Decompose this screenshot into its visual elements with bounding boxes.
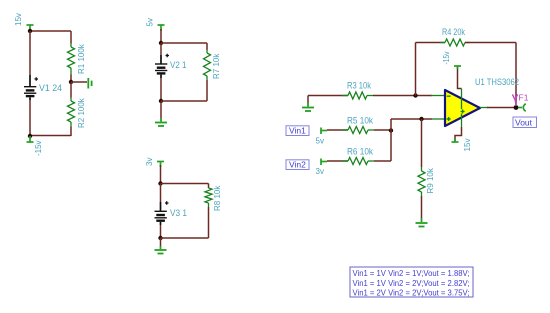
svg-text:R3 10k: R3 10k: [347, 81, 371, 91]
power terminal 3v (V3 top): [157, 162, 164, 168]
open terminal at output: [519, 104, 526, 112]
svg-text:V3 1: V3 1: [170, 208, 187, 218]
wire output: [487, 107, 516, 109]
wire Vin2 to R6: [327, 160, 348, 162]
ground (R3 input): [302, 96, 314, 112]
wire V1 bottom: [30, 135, 71, 137]
measurement results text box: [350, 267, 473, 298]
svg-text:15v: 15v: [463, 139, 472, 152]
resistor R5 10k: [342, 116, 374, 134]
svg-text:Vin1 = 2V Vin2 = 2V;Vout = 3.7: Vin1 = 2V Vin2 = 2V;Vout = 3.75V;: [353, 288, 470, 298]
resistor R6 10k: [342, 147, 374, 165]
op-amp output pin lead: [480, 107, 488, 109]
svg-text:-15v: -15v: [34, 140, 43, 156]
svg-text:V1 24: V1 24: [39, 83, 62, 93]
svg-text:-15v: -15v: [442, 52, 451, 65]
wire feedback right leg: [515, 43, 517, 108]
svg-text:5v: 5v: [316, 137, 324, 146]
label Vin1: [286, 126, 309, 136]
svg-text:R5 10k: R5 10k: [347, 116, 373, 126]
wire R5 to summing node: [374, 129, 391, 131]
wire V1 right upper lead: [70, 31, 72, 44]
voltage probe F1: [512, 93, 528, 107]
svg-text:R4 20k: R4 20k: [442, 27, 465, 37]
junction summing node: [389, 128, 393, 132]
wire R8 to bottom: [208, 207, 210, 238]
junction feedback left: [413, 93, 417, 97]
svg-text:Vin1 = 1V Vin2 = 2V;Vout = 2.8: Vin1 = 1V Vin2 = 2V;Vout = 2.82V;: [353, 278, 470, 288]
resistor R7 10k: [204, 50, 222, 80]
junction V2 bottom: [159, 99, 163, 103]
wire R3 to inverting input: [373, 95, 432, 97]
wire V2 left upper: [160, 43, 162, 55]
wire feedback top left: [416, 42, 446, 44]
resistor R4 20k: [440, 27, 470, 46]
svg-text:R8 10k: R8 10k: [213, 185, 222, 211]
wire V2 top horizontal: [161, 42, 207, 44]
junction V3 top: [158, 181, 162, 185]
junction mid divider node: [69, 80, 73, 84]
wire V3 to ground: [160, 238, 162, 246]
wire junction to R2: [70, 82, 72, 98]
svg-text:5v: 5v: [146, 18, 155, 26]
junction R9 tap: [419, 117, 423, 121]
ground (right-pointing, divider node): [88, 78, 91, 89]
wire V2 to ground: [160, 101, 162, 118]
wire R9 lower: [421, 196, 423, 218]
wire R7 to bottom: [206, 80, 208, 101]
input terminal Vin2: [321, 159, 327, 166]
battery V3 1: [155, 201, 188, 225]
ground (V2): [155, 118, 167, 126]
svg-text:U1 THS3062: U1 THS3062: [475, 77, 519, 87]
wire V1 left lower: [29, 100, 31, 136]
svg-text:Vin2: Vin2: [289, 160, 306, 170]
svg-text:15v: 15v: [14, 13, 23, 26]
junction V3 bottom: [158, 236, 162, 240]
svg-text:R9 10k: R9 10k: [426, 167, 435, 193]
svg-text:R2 100k: R2 100k: [77, 97, 86, 128]
battery V1 24: [24, 75, 62, 100]
op-amp non-inverting pin lead: [431, 118, 445, 120]
svg-text:3v: 3v: [316, 167, 324, 176]
svg-text:Vin1 = 1V Vin2 = 1V;Vout = 1.8: Vin1 = 1V Vin2 = 1V;Vout = 1.88V;: [353, 268, 470, 278]
wire V3 bottom horizontal: [161, 237, 209, 239]
battery V2 1: [155, 54, 187, 78]
wire Vin1 to R5: [327, 129, 348, 131]
junction V1 bottom-left: [28, 134, 32, 138]
junction V1 top-left: [28, 29, 32, 33]
op-amp U1 THS3062: [445, 77, 519, 126]
resistor R1 100k: [68, 43, 87, 74]
junction V2 top: [159, 41, 163, 45]
svg-text:Vout: Vout: [515, 118, 533, 128]
wire R2 to bottom: [70, 127, 72, 137]
wire V3 left upper: [160, 184, 162, 203]
wire feedback top right: [465, 42, 516, 44]
svg-text:F1: F1: [519, 93, 529, 103]
svg-text:R7 10k: R7 10k: [212, 53, 221, 79]
wire V3 top vertical: [160, 165, 162, 184]
wire V2 top vertical: [160, 29, 162, 43]
power terminal +15V (V1 top): [27, 25, 34, 31]
wire V3 top horizontal: [161, 183, 209, 185]
power terminal 5v (V2 top): [158, 25, 165, 31]
wire ground to R3: [308, 95, 348, 97]
wire V1 top: [30, 30, 71, 32]
op-amp V- power pin: [442, 52, 462, 110]
svg-text:R6 10k: R6 10k: [347, 147, 373, 157]
resistor R8 10k: [205, 185, 222, 211]
resistor R2 100k: [68, 97, 87, 128]
wire to non-inverting input: [391, 118, 432, 120]
junction output node: [514, 105, 519, 110]
svg-text:R1 100k: R1 100k: [77, 43, 86, 74]
op-amp V+ power pin: [452, 114, 473, 152]
resistor R3 10k: [342, 81, 373, 100]
label Vout: [513, 117, 537, 128]
svg-text:V2 1: V2 1: [170, 60, 187, 70]
wire V1 left upper: [29, 31, 31, 75]
ground (R9): [416, 218, 428, 227]
wire V3 right upper lead: [208, 184, 210, 189]
wire V2 bottom horizontal: [161, 100, 207, 102]
op-amp inverting pin lead: [431, 95, 445, 97]
svg-text:Vin1: Vin1: [289, 126, 306, 136]
label Vin2: [286, 160, 309, 170]
power terminal -15V (V1 bottom): [27, 136, 34, 142]
wire V2 left lower: [160, 78, 162, 101]
wire V2 right upper lead: [206, 43, 208, 50]
wire R6 to summing node: [374, 160, 391, 162]
wire junction to ground: [71, 81, 87, 83]
wire R1 to junction: [70, 75, 72, 83]
ground (V3): [155, 246, 167, 254]
wire summing node vertical: [390, 119, 392, 161]
svg-text:3v: 3v: [145, 158, 154, 166]
wire R9 upper: [421, 119, 423, 167]
input terminal Vin1: [321, 128, 327, 135]
wire feedback left leg: [415, 43, 417, 96]
resistor R9 10k: [418, 167, 435, 196]
wire V3 left lower: [160, 225, 162, 238]
